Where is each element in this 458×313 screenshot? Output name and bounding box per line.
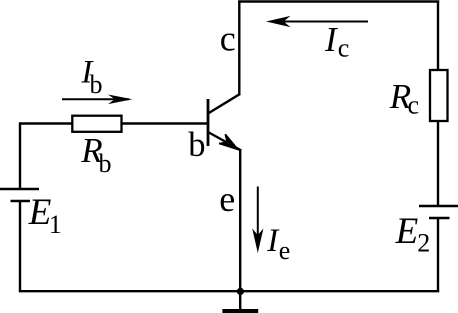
label Ib: [80, 55, 102, 100]
battery E1: [0, 189, 39, 201]
current arrow Ib: [62, 95, 133, 105]
svg-text:e: e: [279, 236, 291, 265]
resistor Rb: [72, 116, 121, 132]
label Ic: [324, 20, 349, 63]
ground: [222, 309, 258, 313]
svg-text:e: e: [219, 179, 235, 219]
wire base horizontal: [19, 122, 208, 124]
svg-text:1: 1: [49, 210, 62, 239]
label Ie: [266, 223, 290, 265]
transistor Q1 emitter arm: [208, 132, 241, 151]
svg-text:c: c: [408, 91, 420, 120]
resistor Rc: [430, 70, 448, 121]
wire right vertical upper: [437, 1, 439, 73]
node junction dot: [237, 288, 244, 295]
svg-text:c: c: [220, 19, 236, 59]
svg-text:b: b: [99, 149, 112, 178]
label Rc: [389, 77, 419, 120]
current arrow Ie: [252, 187, 263, 254]
label E1: [28, 192, 62, 239]
svg-text:I: I: [324, 20, 339, 59]
transistor Q1 emitter arrowhead: [219, 134, 238, 149]
wire collector vertical: [238, 1, 240, 95]
wire right vertical lower: [437, 218, 439, 292]
svg-text:E: E: [395, 211, 419, 252]
transistor Q1 collector arm: [208, 94, 240, 114]
wire top horizontal: [238, 0, 439, 2]
current arrow Ic: [266, 16, 368, 27]
wire emitter vertical: [239, 150, 241, 311]
svg-text:b: b: [90, 70, 103, 99]
label Rb: [80, 131, 111, 178]
svg-text:c: c: [338, 34, 350, 63]
wire right vertical middle: [437, 121, 439, 206]
battery E2: [419, 206, 458, 218]
wire left vertical upper: [19, 124, 21, 190]
wire left vertical lower: [19, 201, 21, 292]
svg-text:b: b: [188, 126, 205, 164]
svg-text:2: 2: [417, 228, 430, 257]
label E2: [395, 211, 431, 257]
wire bottom horizontal: [19, 290, 439, 292]
transistor Q1 base bar: [207, 99, 210, 146]
